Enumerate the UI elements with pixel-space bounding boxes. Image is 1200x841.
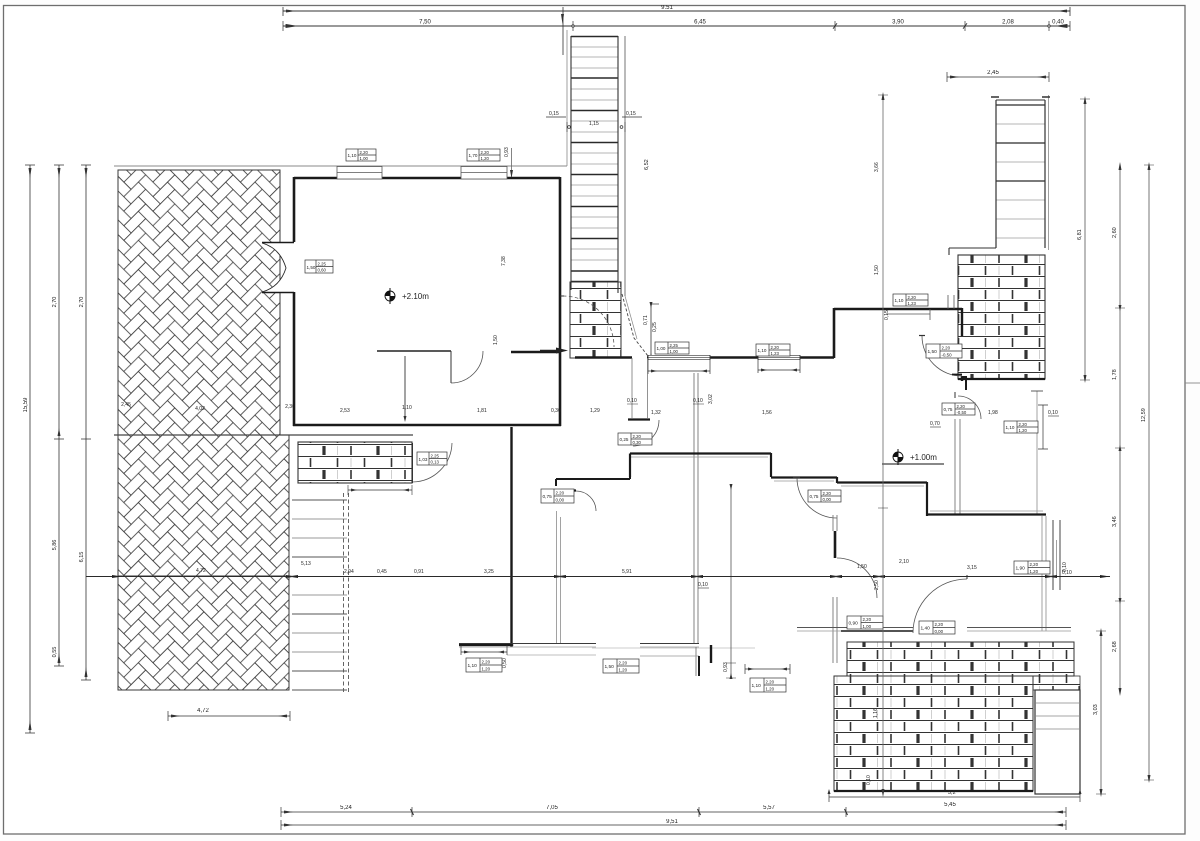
svg-text:2,53: 2,53	[340, 408, 350, 414]
stair top treads	[571, 47, 618, 260]
wall x835 below	[833, 515, 837, 531]
svg-text:2,70: 2,70	[79, 297, 85, 308]
svg-text:1,50: 1,50	[928, 349, 938, 355]
svg-text:2,20: 2,20	[619, 661, 628, 666]
svg-text:1,20: 1,20	[766, 687, 775, 692]
label box 1.10 window2	[756, 344, 790, 356]
svg-text:0,93: 0,93	[723, 662, 729, 672]
svg-text:1,81: 1,81	[477, 408, 487, 414]
svg-text:0,90: 0,90	[849, 621, 859, 627]
svg-text:3,66: 3,66	[874, 162, 880, 172]
svg-text:5,45: 5,45	[944, 802, 956, 808]
stair top-right rails	[996, 100, 1045, 248]
svg-text:1,50: 1,50	[857, 564, 867, 570]
svg-text:3,03: 3,03	[1093, 704, 1099, 715]
wall x512 center	[510, 427, 512, 645]
svg-text:1,10: 1,10	[895, 298, 904, 303]
wall jog y309 right section	[834, 308, 962, 311]
svg-text:3,46: 3,46	[1112, 516, 1118, 527]
dimension left vertical 5.86 / 0.55	[54, 165, 64, 666]
svg-text:0,13: 0,13	[431, 460, 440, 465]
svg-text:7,50: 7,50	[419, 20, 431, 26]
dim bracket x1043	[1038, 405, 1048, 449]
room A top wall with windows	[294, 177, 560, 180]
door label box 1.50	[926, 344, 962, 358]
svg-text:0,10: 0,10	[1062, 570, 1072, 576]
svg-text:0,50: 0,50	[502, 658, 508, 668]
dim x731 vertical	[730, 485, 732, 678]
dimension 4.72 bottom of terrace	[168, 711, 290, 721]
dim arrow at wall left	[540, 350, 562, 352]
svg-text:2,08: 2,08	[1002, 20, 1014, 26]
dim labels above y435 line	[121, 402, 295, 412]
grid line x512 upper drop	[511, 148, 513, 177]
svg-text:0,91: 0,91	[414, 569, 424, 575]
svg-text:7,05: 7,05	[546, 805, 558, 811]
labels 0.10/1.32/1.56	[627, 398, 772, 416]
svg-text:2,20: 2,20	[766, 680, 775, 685]
svg-text:2,20: 2,20	[1030, 562, 1039, 567]
label box 1.10 left	[466, 658, 502, 672]
svg-text:0,55: 0,55	[52, 647, 58, 658]
level symbol +2.10m	[385, 288, 429, 304]
svg-text:0,00: 0,00	[556, 498, 565, 503]
bottom dim 3.2 masonry	[828, 789, 1082, 802]
svg-text:5,86: 5,86	[52, 540, 58, 551]
svg-text:1,20: 1,20	[1019, 428, 1028, 433]
dimension top line segments 7.50 / 6.45 / 3.90 / 2.08 / 0.40	[283, 21, 1070, 31]
svg-text:2,68: 2,68	[1112, 641, 1118, 652]
hatch terrace middle (herringbone)	[118, 435, 289, 576]
masonry band bottom-right	[847, 642, 1074, 676]
label box 1.10 bottom	[750, 678, 786, 692]
svg-text:1,20: 1,20	[482, 667, 491, 672]
svg-text:2,20: 2,20	[360, 150, 369, 155]
wall right of door x963 lower	[962, 377, 967, 390]
room A dim texts	[340, 405, 600, 414]
svg-text:0,10: 0,10	[1048, 410, 1058, 416]
dashed door arc right of room A	[563, 296, 614, 347]
svg-text:1,00: 1,00	[863, 624, 872, 629]
right dim chain x1120	[1119, 165, 1121, 693]
svg-text:5,57: 5,57	[763, 805, 775, 811]
wall brick strip left (masonry)	[298, 442, 412, 483]
svg-text:1,00: 1,00	[657, 346, 666, 351]
corridor double lines x694	[694, 373, 698, 643]
stair bottom-left dashed stringer	[344, 493, 349, 694]
svg-text:0,00: 0,00	[935, 629, 944, 634]
svg-text:6,15: 6,15	[79, 552, 85, 563]
svg-text:1,16: 1,16	[873, 708, 879, 718]
svg-text:2,45: 2,45	[987, 70, 999, 76]
svg-text:2,50: 2,50	[874, 580, 880, 590]
dim under brick strip	[348, 485, 412, 495]
svg-text:9.51: 9.51	[661, 5, 673, 11]
room A interior stub wall	[511, 351, 560, 353]
stepped wall mid	[630, 453, 1046, 516]
label box 1.90	[1014, 561, 1050, 574]
door label box 1.03	[417, 452, 447, 465]
svg-text:0,15: 0,15	[626, 111, 636, 117]
void room in masonry	[1035, 690, 1080, 794]
room A interior wall + door	[377, 350, 451, 352]
bottom overall dim 9.51	[281, 820, 1066, 830]
svg-text:2,70: 2,70	[52, 297, 58, 308]
chute dim 0.71	[650, 304, 652, 357]
svg-text:2,25: 2,25	[318, 262, 327, 267]
window label box 1.50	[305, 260, 333, 273]
svg-text:0,60: 0,60	[318, 268, 327, 273]
masonry block bottom-right	[834, 676, 1033, 791]
room A window reveal in left wall	[262, 243, 292, 292]
svg-text:4,72: 4,72	[197, 708, 209, 714]
stair width dim 0.15 / 1.15 / 0.15	[546, 117, 642, 132]
svg-text:-0,50: -0,50	[957, 410, 967, 415]
svg-text:5,13: 5,13	[301, 561, 311, 567]
svg-text:1,10: 1,10	[348, 153, 357, 158]
svg-text:1,29: 1,29	[590, 408, 600, 414]
svg-text:0,93: 0,93	[504, 147, 510, 157]
svg-text:1,00: 1,00	[360, 156, 369, 161]
svg-text:0,10: 0,10	[698, 582, 708, 588]
interior wall x957 lower	[955, 419, 960, 514]
svg-text:0,10: 0,10	[627, 398, 637, 404]
right dim 6.81	[1084, 99, 1086, 380]
svg-text:0,75: 0,75	[810, 494, 819, 499]
svg-text:2,20: 2,20	[942, 346, 951, 351]
right edge tick	[1185, 382, 1200, 384]
dim bracket under window 1	[648, 358, 710, 374]
stair chute masonry	[570, 282, 621, 358]
dim y669 horizontal	[745, 664, 790, 674]
svg-text:4,02: 4,02	[195, 406, 205, 412]
svg-text:4,72: 4,72	[196, 568, 206, 574]
door arc lower left	[837, 558, 877, 598]
svg-text:12,59: 12,59	[1141, 408, 1147, 422]
svg-text:1,10: 1,10	[1006, 425, 1015, 430]
svg-text:1,20: 1,20	[481, 156, 490, 161]
svg-text:0,15: 0,15	[549, 111, 559, 117]
long grid line x883	[882, 95, 884, 794]
centerline dim texts	[196, 559, 1072, 588]
svg-text:7,38: 7,38	[501, 256, 507, 266]
svg-text:1,50: 1,50	[874, 265, 880, 275]
svg-text:0,00: 0,00	[823, 497, 832, 502]
svg-text:0,45: 0,45	[377, 569, 387, 575]
svg-text:1,03: 1,03	[419, 457, 428, 462]
svg-text:2,60: 2,60	[1112, 227, 1118, 238]
svg-text:3,02: 3,02	[708, 394, 714, 404]
svg-text:0,70: 0,70	[930, 421, 940, 427]
svg-text:5,24: 5,24	[340, 805, 352, 811]
svg-text:3,15: 3,15	[967, 565, 977, 571]
door arc bottom-right room	[913, 579, 967, 633]
door arc at brick strip	[413, 443, 453, 482]
svg-text:+2.10m: +2.10m	[402, 292, 429, 301]
dimension top line 9.51	[283, 7, 1070, 55]
svg-text:+1.00m: +1.00m	[910, 453, 937, 462]
svg-text:1,78: 1,78	[1112, 369, 1118, 380]
stair top-right treads	[996, 124, 1045, 238]
ledge line	[949, 247, 996, 249]
svg-text:0,10: 0,10	[693, 398, 703, 404]
level symbol +1.00m	[882, 449, 944, 465]
svg-text:0,40: 0,40	[1052, 20, 1064, 26]
svg-text:5,91: 5,91	[622, 569, 632, 575]
svg-text:2,25: 2,25	[431, 454, 440, 459]
svg-text:2,20: 2,20	[771, 345, 780, 350]
svg-text:0,25: 0,25	[652, 322, 658, 332]
label box 1.00 window1	[655, 342, 689, 354]
hatch terrace upper (herringbone)	[118, 170, 280, 435]
hatch terrace lower (herringbone)	[118, 576, 289, 690]
right dim 3.03	[1100, 631, 1102, 794]
wall step left x556	[556, 454, 630, 479]
room A left wall	[293, 177, 296, 426]
svg-text:2,20: 2,20	[482, 660, 491, 665]
label box 1.40	[919, 621, 955, 634]
svg-text:9,51: 9,51	[666, 819, 678, 825]
room left wall x557 lower	[557, 511, 561, 643]
svg-text:1,32: 1,32	[651, 410, 661, 416]
stair top side rails	[571, 36, 618, 293]
svg-text:2,20: 2,20	[935, 622, 944, 627]
svg-text:1,50: 1,50	[307, 265, 316, 270]
svg-text:1,20: 1,20	[619, 668, 628, 673]
window label boxes above room A	[346, 149, 376, 161]
dim 2.45	[947, 72, 1049, 82]
svg-text:-0,50: -0,50	[942, 353, 953, 358]
svg-text:1,56: 1,56	[762, 410, 772, 416]
window in main wall 648-710	[648, 355, 710, 360]
svg-text:2,20: 2,20	[633, 434, 642, 439]
svg-text:2,10: 2,10	[899, 559, 909, 565]
svg-text:0,75: 0,75	[543, 494, 553, 500]
svg-text:0,75: 0,75	[944, 407, 953, 412]
svg-text:0,15: 0,15	[884, 310, 890, 320]
svg-text:2,20: 2,20	[823, 491, 832, 496]
room right boundary x1037	[1036, 391, 1038, 514]
label box 1.10 above wall	[893, 294, 928, 306]
interior dim line 1.10	[404, 356, 406, 419]
svg-text:1,50: 1,50	[605, 664, 615, 670]
svg-text:3,2: 3,2	[948, 790, 956, 796]
right dim 12.59	[1148, 165, 1150, 780]
label box 0.90	[847, 616, 883, 629]
svg-text:2,20: 2,20	[1019, 422, 1028, 427]
main wall y358	[575, 356, 834, 359]
svg-text:2,20: 2,20	[863, 617, 872, 622]
stair bottom-left ladder rails	[292, 500, 347, 671]
svg-text:1,20: 1,20	[1030, 569, 1039, 574]
svg-text:15,59: 15,59	[23, 397, 29, 413]
bottom dim chain 5.24/7.05/5.57/5.45	[281, 807, 1066, 817]
dimension left vertical 6.15	[81, 165, 91, 680]
top thin site line	[114, 165, 567, 167]
dim bracket left under wall	[461, 645, 507, 655]
svg-text:1,23: 1,23	[771, 351, 780, 356]
svg-text:2,45: 2,45	[121, 402, 131, 408]
svg-text:0,25: 0,25	[620, 437, 629, 442]
svg-text:1,50: 1,50	[493, 335, 499, 345]
svg-text:2,25: 2,25	[670, 343, 679, 348]
svg-text:2,20: 2,20	[556, 491, 565, 496]
wall x962 with door	[961, 308, 963, 381]
svg-text:1,00: 1,00	[670, 349, 679, 354]
svg-text:1,10: 1,10	[468, 663, 478, 669]
svg-text:1,98: 1,98	[988, 410, 998, 416]
chute funnel	[622, 294, 648, 356]
bottom-center wall y645	[459, 643, 699, 645]
svg-text:0,71: 0,71	[643, 315, 649, 325]
svg-text:2,20: 2,20	[957, 404, 966, 409]
label box 1.50 center	[603, 659, 639, 673]
dim bracket under window 2	[758, 358, 800, 373]
svg-text:1,40: 1,40	[921, 626, 931, 632]
svg-text:3,90: 3,90	[892, 20, 904, 26]
svg-text:1,15: 1,15	[589, 121, 599, 127]
bath door arc	[958, 396, 981, 419]
window piece x1056	[1053, 520, 1060, 590]
svg-text:0,30: 0,30	[633, 440, 642, 445]
svg-text:1,10: 1,10	[402, 405, 412, 411]
svg-text:2,94: 2,94	[344, 569, 354, 575]
door label box 0.25	[618, 433, 652, 445]
site line y435	[114, 434, 413, 436]
room divider x1044 lower	[1042, 516, 1046, 631]
svg-text:2,20: 2,20	[481, 150, 490, 155]
svg-text:2,20: 2,20	[908, 295, 917, 300]
svg-text:6,45: 6,45	[694, 20, 706, 26]
svg-text:3,25: 3,25	[484, 569, 494, 575]
svg-text:6,81: 6,81	[1077, 229, 1083, 240]
window in main wall 758-800	[758, 355, 800, 360]
svg-text:0,10: 0,10	[866, 775, 872, 785]
door in main wall at 632	[632, 358, 648, 418]
svg-text:1,90: 1,90	[1016, 566, 1026, 572]
room A bottom wall	[293, 424, 561, 427]
svg-text:1,23: 1,23	[908, 301, 917, 306]
door arc hall	[797, 478, 837, 518]
wall y631 right bottom	[797, 627, 1071, 629]
svg-text:1,10: 1,10	[758, 348, 767, 353]
dimension left vertical 15.59	[25, 165, 35, 733]
door arc kitchen	[922, 336, 962, 376]
svg-text:1,10: 1,10	[752, 683, 762, 689]
masonry right upper	[958, 255, 1045, 379]
svg-text:1,70: 1,70	[469, 153, 478, 158]
room A right wall	[559, 177, 562, 426]
reference centerline y576	[86, 576, 1110, 578]
svg-text:0,30: 0,30	[551, 408, 561, 414]
svg-text:6,52: 6,52	[644, 159, 650, 170]
